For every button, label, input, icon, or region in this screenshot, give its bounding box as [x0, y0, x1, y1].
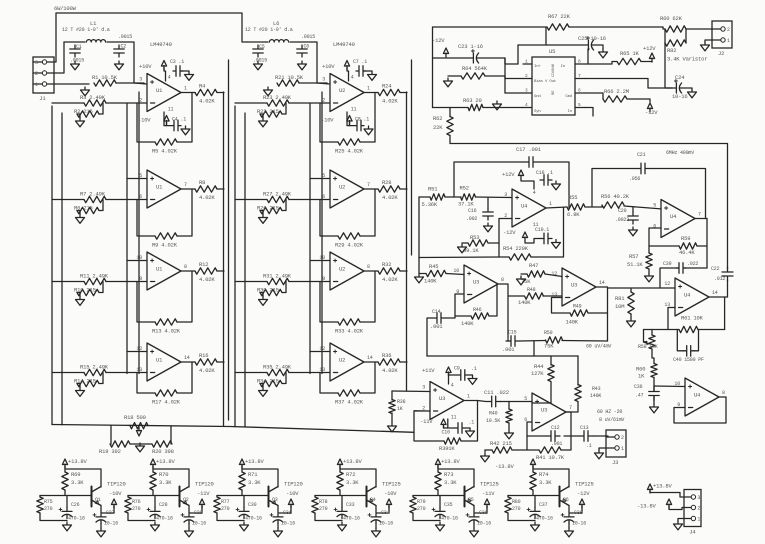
inductor L6	[269, 40, 288, 42]
svg-text:60 uV/4mV: 60 uV/4mV	[586, 344, 611, 350]
svg-text:Cmd: Cmd	[565, 94, 572, 99]
svg-text:C16: C16	[468, 208, 477, 214]
wire	[235, 281, 267, 283]
svg-text:C31: C31	[283, 510, 292, 516]
resistor R23 2.49K	[267, 100, 289, 106]
wire bus	[126, 103, 128, 374]
resistor R17 4.02K	[155, 390, 177, 396]
wire base	[413, 495, 465, 497]
transistor Q6 TIP125	[559, 487, 561, 507]
ground	[688, 89, 697, 98]
wire base	[40, 495, 92, 497]
ground	[470, 528, 479, 537]
svg-text:-12V: -12V	[577, 490, 590, 497]
wire	[241, 466, 243, 472]
svg-text:-10V: -10V	[384, 490, 397, 497]
svg-text:22K: 22K	[433, 124, 443, 131]
svg-text:11: 11	[168, 107, 174, 113]
ground	[259, 118, 268, 127]
ground	[466, 428, 475, 437]
+11V arrow	[446, 367, 451, 376]
resistor R75 270	[37, 497, 43, 513]
svg-text:270: 270	[132, 506, 141, 512]
wire collector run	[242, 469, 278, 487]
svg-text:7: 7	[184, 182, 187, 188]
op-amp U4c	[675, 278, 709, 316]
ground	[71, 61, 80, 70]
U5 pin 1	[523, 63, 532, 65]
op-amp U2 stage 2	[330, 170, 364, 208]
svg-text:12 T #20 1-0' d.a: 12 T #20 1-0' d.a	[62, 27, 110, 33]
resistor R52 37.1K	[461, 194, 476, 200]
svg-text:R67 22K: R67 22K	[548, 13, 571, 20]
wire	[243, 496, 245, 508]
svg-text:3: 3	[422, 385, 425, 391]
resistor R49 140K	[570, 310, 588, 316]
wire	[130, 443, 152, 445]
resistor R82 varistor 3.4K	[665, 40, 686, 46]
svg-text:Gnd: Gnd	[534, 94, 541, 99]
resistor R14 215	[77, 380, 99, 386]
svg-text:4.02K: 4.02K	[199, 367, 215, 374]
svg-text:TIP120: TIP120	[107, 481, 126, 488]
op-amp U1 stage 3	[147, 252, 181, 290]
svg-text:46.4K: 46.4K	[679, 249, 695, 256]
svg-text:R29 4.02K: R29 4.02K	[335, 242, 364, 249]
wire	[127, 351, 147, 353]
svg-text:-11V: -11V	[197, 490, 210, 497]
-11V arrow	[484, 499, 489, 508]
+13.8V arrow stage Q6	[530, 459, 535, 468]
svg-text:TIP125: TIP125	[480, 481, 499, 488]
-10V arrow	[386, 499, 391, 508]
svg-text:5: 5	[524, 396, 527, 402]
svg-text:R76: R76	[132, 499, 141, 505]
wire feedback	[461, 401, 478, 442]
-12V arrow	[522, 232, 527, 241]
svg-text:10-16: 10-16	[379, 521, 393, 527]
svg-text:R70: R70	[159, 471, 168, 478]
U5 pin 5	[575, 107, 585, 109]
svg-text:U4: U4	[521, 203, 528, 210]
-13.8V arrow	[666, 499, 671, 508]
ground	[274, 528, 283, 537]
ground	[481, 453, 490, 462]
svg-text:R54 220K: R54 220K	[503, 245, 529, 252]
wire feedback loop	[454, 162, 524, 197]
svg-text:J4: J4	[689, 529, 696, 536]
svg-text:R9 4.02K: R9 4.02K	[152, 242, 178, 249]
svg-text:1: 1	[367, 86, 370, 92]
svg-text:.002: .002	[466, 216, 477, 222]
wire collector run	[153, 469, 189, 487]
svg-text:R79: R79	[417, 499, 426, 505]
resistor R70 3.3K	[150, 472, 156, 490]
svg-text:R64 564K: R64 564K	[462, 65, 488, 72]
ground	[458, 244, 467, 253]
resistor R5 4.02K	[155, 139, 177, 145]
svg-text:R27 2.49K: R27 2.49K	[263, 191, 292, 198]
resistor R20 398	[152, 441, 172, 447]
svg-text:6.8K: 6.8K	[567, 211, 580, 218]
svg-text:.0015: .0015	[118, 34, 132, 40]
-12V arrow	[579, 499, 584, 508]
svg-text:8 uV/61mV: 8 uV/61mV	[599, 417, 624, 423]
resistor R74 3.3K	[530, 472, 536, 490]
wire emitter	[569, 506, 582, 514]
svg-text:.001: .001	[430, 323, 443, 330]
op-amp U3d	[532, 393, 566, 431]
resistor R79 270	[410, 497, 416, 513]
resistor R1 10.5K	[94, 80, 116, 86]
connector J2	[712, 21, 732, 48]
svg-text:R40: R40	[489, 411, 498, 417]
wire	[310, 178, 330, 180]
svg-text:Q6: Q6	[563, 497, 569, 503]
svg-text:R82: R82	[667, 47, 676, 54]
capacitor C36 .47	[649, 387, 659, 401]
resistor R53 39.1K	[468, 240, 488, 246]
resistor R25 4.02K	[338, 139, 360, 145]
-11V arrow	[199, 499, 204, 508]
resistor R69 3.3K	[62, 472, 68, 490]
capacitor C23 1-16	[469, 53, 473, 63]
svg-text:R61 10K: R61 10K	[681, 315, 704, 322]
ground	[259, 388, 268, 397]
resistor R78 270	[312, 497, 318, 513]
wire	[500, 401, 532, 403]
U5 pin 3	[523, 92, 532, 94]
svg-text:L6: L6	[273, 20, 279, 27]
svg-text:+13.8V: +13.8V	[343, 458, 363, 465]
ground	[364, 126, 373, 135]
capacitor C29 10-16	[184, 514, 194, 517]
svg-text:140K: 140K	[518, 299, 531, 306]
svg-text:R63 20: R63 20	[463, 97, 482, 104]
svg-text:270: 270	[319, 506, 328, 512]
wire	[488, 242, 499, 244]
svg-text:12 T #20 1-0' d.a: 12 T #20 1-0' d.a	[245, 27, 293, 33]
svg-text:.022: .022	[687, 261, 698, 267]
svg-text:C35: C35	[444, 502, 453, 508]
resistor R57 51.1K	[646, 253, 652, 269]
svg-text:C38: C38	[574, 510, 583, 516]
wire	[508, 402, 510, 410]
+13.8V arrow stage Q4	[337, 459, 342, 468]
svg-text:4: 4	[533, 190, 536, 196]
wire	[181, 270, 195, 272]
wire	[445, 196, 461, 198]
resistor R62 22K	[447, 117, 453, 136]
svg-text:U4: U4	[694, 392, 701, 399]
wire	[47, 42, 64, 73]
op-amp U3b	[562, 268, 596, 306]
U5 pin 2	[523, 78, 532, 80]
capacitor C21 .056	[636, 163, 650, 174]
svg-text:.1: .1	[469, 420, 475, 426]
wire	[653, 378, 655, 392]
op-amp U2 stage 3	[330, 252, 364, 290]
svg-text:270: 270	[44, 506, 53, 512]
svg-text:U4: U4	[670, 213, 677, 220]
svg-text:+12V: +12V	[643, 45, 656, 52]
svg-text:140K: 140K	[566, 319, 579, 326]
svg-text:.0022: .0022	[615, 217, 629, 223]
capacitor C34 10-16	[371, 514, 381, 517]
U5 pin 4	[523, 107, 532, 109]
ground	[645, 273, 654, 282]
svg-text:270: 270	[512, 506, 521, 512]
wire output bus	[223, 92, 225, 426]
svg-text:R12: R12	[199, 261, 208, 268]
capacitor C16 .002	[483, 208, 493, 220]
svg-text:R46: R46	[473, 307, 482, 313]
svg-text:14: 14	[367, 355, 373, 361]
wire	[652, 349, 654, 364]
svg-text:10.5K: 10.5K	[486, 418, 500, 424]
+13.8V arrow stage Q2	[150, 459, 155, 468]
svg-text:470-16: 470-16	[441, 516, 458, 522]
wire	[364, 270, 378, 272]
svg-text:R48: R48	[527, 287, 536, 293]
wire	[505, 92, 523, 94]
wire	[64, 466, 66, 472]
svg-text:R45: R45	[429, 263, 438, 270]
capacitor C7 .1	[356, 66, 366, 76]
-12V arrow	[647, 103, 652, 112]
svg-text:U5: U5	[549, 48, 555, 55]
wire	[568, 523, 570, 528]
svg-text:1: 1	[467, 394, 470, 400]
wire output	[546, 207, 567, 208]
capacitor C4 .1	[171, 120, 181, 131]
svg-text:3.4K Varistor: 3.4K Varistor	[667, 56, 707, 63]
resistor R46 140K	[471, 313, 489, 319]
svg-text:3: 3	[35, 60, 38, 66]
wire feedback loop	[360, 93, 375, 143]
capacitor C25 10-16	[584, 40, 588, 50]
wire	[448, 374, 450, 384]
svg-text:8: 8	[501, 277, 504, 283]
svg-text:+13.8V: +13.8V	[441, 458, 461, 465]
svg-text:10-16: 10-16	[104, 521, 118, 527]
wire	[508, 295, 524, 297]
wire	[446, 316, 471, 318]
svg-text:2: 2	[35, 71, 38, 77]
wire feedback	[649, 228, 679, 246]
capacitor C24 10-16	[672, 83, 676, 93]
resistor R40 10.5K	[506, 409, 512, 423]
svg-text:2: 2	[621, 435, 624, 441]
svg-text:R66 2.2M: R66 2.2M	[604, 88, 629, 95]
wire	[650, 491, 684, 497]
svg-text:C12: C12	[551, 425, 560, 431]
resistor R35 2.49K	[267, 369, 289, 375]
ground	[338, 522, 347, 531]
wire pin 11 drop	[447, 419, 449, 428]
wire	[339, 466, 341, 472]
ground	[76, 215, 85, 224]
resistor R12 4.02K	[195, 268, 217, 274]
capacitor C27 10-16	[96, 514, 106, 517]
svg-text:R56 40.2K: R56 40.2K	[601, 193, 630, 200]
svg-text:+12V: +12V	[502, 171, 515, 178]
svg-text:.001: .001	[502, 346, 515, 353]
svg-text:R44: R44	[534, 363, 544, 370]
wire	[277, 523, 279, 528]
svg-text:.001: .001	[551, 441, 562, 447]
wire output loop	[674, 397, 726, 423]
U5 pin 6	[575, 92, 585, 94]
wire feedback loop	[360, 271, 375, 322]
wire	[706, 219, 708, 269]
wire summing node run	[419, 256, 499, 259]
svg-text:C40 1500 PF: C40 1500 PF	[673, 357, 704, 363]
wire collector run	[340, 469, 376, 487]
wire	[663, 27, 665, 29]
svg-text:10: 10	[453, 268, 459, 274]
svg-text:470-16: 470-16	[343, 516, 360, 522]
resistor R76 270	[125, 497, 131, 513]
ground	[505, 430, 514, 439]
svg-text:60 HZ -20: 60 HZ -20	[597, 409, 622, 415]
svg-text:Bias V Out: Bias V Out	[534, 79, 556, 84]
wire emitter	[474, 506, 487, 514]
svg-text:C20: C20	[618, 208, 627, 214]
+13.8V arrow stage Q1	[62, 459, 67, 468]
resistor R3 2.49K	[84, 100, 106, 106]
svg-text:4.02K: 4.02K	[382, 276, 398, 283]
wire	[444, 426, 455, 428]
ground	[259, 215, 268, 224]
svg-text:U1: U1	[156, 184, 163, 191]
wire base	[508, 495, 560, 497]
svg-text:270: 270	[417, 506, 426, 512]
wire bus	[321, 92, 323, 374]
resistor R41 10.7K	[539, 447, 561, 453]
wire	[462, 242, 468, 244]
svg-text:C21: C21	[637, 152, 646, 158]
resistor R38 1K	[389, 400, 395, 414]
wire	[669, 506, 684, 510]
svg-text:470-16: 470-16	[245, 516, 262, 522]
wire input bus	[51, 106, 53, 425]
wire base	[128, 495, 180, 497]
wire	[630, 288, 632, 292]
svg-text:.0015: .0015	[301, 34, 315, 40]
svg-text:C27: C27	[106, 510, 115, 516]
svg-text:R16: R16	[199, 352, 208, 359]
wire	[484, 450, 486, 452]
wire summing riser	[419, 196, 430, 198]
wire	[585, 206, 602, 207]
svg-text:C25 10-16: C25 10-16	[578, 35, 606, 42]
ground	[76, 297, 85, 306]
svg-text:4.02K: 4.02K	[382, 194, 398, 201]
wire	[588, 49, 589, 64]
svg-text:C24: C24	[675, 74, 685, 81]
svg-text:C2: C2	[121, 44, 127, 50]
svg-text:3.3K: 3.3K	[71, 479, 84, 486]
svg-text:C33: C33	[346, 502, 355, 508]
svg-text:U1: U1	[156, 266, 163, 273]
svg-text:10-16: 10-16	[672, 93, 688, 100]
wire	[235, 102, 267, 104]
svg-text:.1: .1	[586, 443, 592, 449]
svg-text:Q3: Q3	[272, 497, 278, 503]
connector J3	[606, 430, 626, 457]
resistor R11 2.49K	[84, 278, 106, 284]
svg-text:R20 398: R20 398	[152, 448, 174, 455]
svg-text:.1: .1	[471, 366, 477, 372]
svg-text:J2: J2	[718, 50, 724, 57]
capacitor C38 10-16	[564, 514, 574, 517]
svg-text:470-16: 470-16	[156, 516, 173, 522]
svg-text:470-16: 470-16	[536, 516, 553, 522]
resistor R66 2.2M	[603, 96, 627, 102]
wire	[152, 466, 154, 472]
svg-text:TIP125: TIP125	[382, 481, 401, 488]
svg-text:.47: .47	[635, 393, 644, 399]
-11V arrow	[441, 419, 446, 428]
wire	[235, 199, 267, 201]
svg-text:5: 5	[653, 203, 656, 209]
wire	[651, 330, 653, 336]
svg-text:R25 4.02K: R25 4.02K	[335, 148, 364, 155]
ground	[259, 297, 268, 306]
svg-text:+13.8V: +13.8V	[68, 458, 88, 465]
wire	[116, 83, 144, 84]
resistor R81 10M	[628, 292, 634, 314]
svg-text:U2: U2	[339, 87, 345, 94]
svg-text:C7 .1: C7 .1	[353, 59, 367, 65]
wire input	[654, 385, 685, 388]
wire	[709, 280, 728, 297]
svg-text:140K: 140K	[424, 278, 437, 285]
svg-text:-12V: -12V	[503, 229, 516, 236]
svg-text:Q2: Q2	[183, 497, 189, 503]
+12V arrow	[649, 53, 654, 62]
svg-text:R36: R36	[382, 352, 391, 359]
svg-text:R21 10.5K: R21 10.5K	[275, 74, 304, 81]
svg-text:C11 .022: C11 .022	[484, 389, 509, 396]
resistor R39 1K	[444, 438, 461, 444]
wire	[47, 83, 89, 85]
svg-text:140K: 140K	[461, 320, 474, 327]
wire feedback	[668, 308, 675, 330]
wire	[347, 68, 349, 82]
svg-text:R391K: R391K	[439, 445, 455, 452]
capacitor C31 10-16	[273, 514, 283, 517]
svg-text:C3 .1: C3 .1	[170, 59, 184, 65]
svg-text:C22: C22	[711, 266, 720, 272]
wire	[550, 356, 552, 365]
wire C21 loop	[592, 169, 636, 207]
capacitor C14 .001	[432, 313, 446, 323]
wire pin 11	[347, 112, 354, 126]
resistor R48 140K	[525, 293, 544, 299]
resistor R16 4.02K	[195, 359, 217, 365]
svg-text:1K: 1K	[397, 406, 403, 412]
svg-text:4: 4	[168, 75, 171, 81]
wire	[235, 372, 267, 374]
-12V arrow	[443, 48, 448, 57]
svg-text:C30: C30	[248, 502, 257, 508]
wire	[216, 496, 218, 498]
svg-text:C6: C6	[304, 44, 310, 50]
svg-text:3: 3	[504, 192, 507, 198]
svg-text:LM49740: LM49740	[150, 41, 172, 48]
